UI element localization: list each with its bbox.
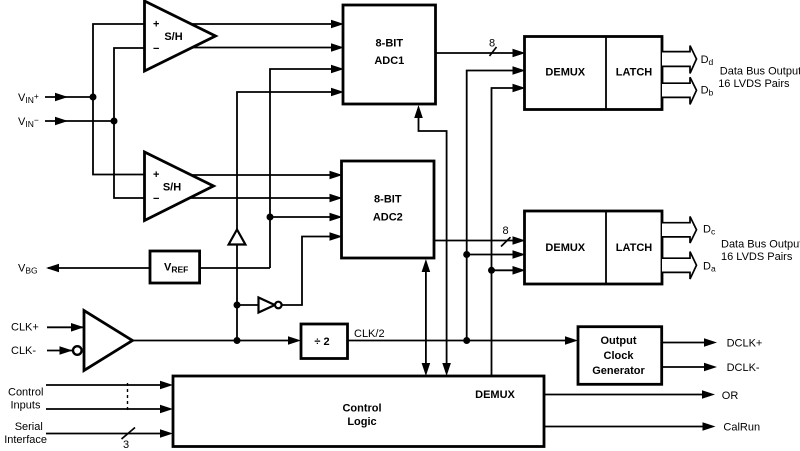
svg-text:16 LVDS Pairs: 16 LVDS Pairs bbox=[718, 78, 790, 90]
svg-text:Logic: Logic bbox=[347, 416, 376, 428]
svg-text:3: 3 bbox=[123, 439, 129, 451]
svg-text:LATCH: LATCH bbox=[616, 67, 653, 79]
svg-text:DEMUX: DEMUX bbox=[475, 389, 515, 401]
wire S/H1 output to ADC1 input 2 bbox=[180, 43, 344, 52]
block ADC1 bbox=[343, 5, 436, 104]
svg-text:S/H: S/H bbox=[163, 181, 181, 193]
wire inverter output to ADC2 input 4 bbox=[282, 232, 343, 305]
wire VBG output bbox=[46, 264, 150, 273]
block control logic bbox=[173, 376, 544, 447]
bus width slash 8 (bottom) bbox=[501, 225, 511, 247]
svg-text:16 LVDS Pairs: 16 LVDS Pairs bbox=[721, 251, 793, 263]
block output clock generator bbox=[578, 327, 662, 385]
wire VIN- input bbox=[45, 117, 114, 125]
label serial interface bbox=[4, 421, 47, 446]
svg-text:ADC1: ADC1 bbox=[374, 55, 404, 67]
node junction CLK/2 to DEMUX2 bbox=[463, 251, 470, 258]
label control inputs bbox=[8, 386, 43, 411]
wire CalRun output bbox=[544, 422, 716, 431]
block divide-by-2 bbox=[301, 324, 348, 359]
wire clock vertical to ADC1 input 4 bbox=[237, 88, 344, 341]
svg-text:DCLK-: DCLK- bbox=[727, 362, 760, 374]
svg-text:ADC2: ADC2 bbox=[373, 212, 403, 224]
control inputs ellipsis dashed line bbox=[127, 383, 129, 411]
node junction demux control bbox=[488, 267, 495, 274]
svg-text:−: − bbox=[153, 193, 159, 205]
svg-text:8: 8 bbox=[502, 225, 508, 237]
svg-text:LATCH: LATCH bbox=[616, 242, 653, 254]
wire DCLK+ output bbox=[662, 338, 718, 347]
wire CLK- input bbox=[47, 346, 73, 355]
wire VIN- to S/H inputs bbox=[114, 48, 145, 198]
wire clock buffer output to divider bbox=[133, 336, 302, 345]
svg-text:Generator: Generator bbox=[592, 365, 645, 377]
bus arrow Dd bbox=[662, 46, 714, 74]
wire serial interface input bbox=[46, 429, 173, 438]
svg-text:+: + bbox=[153, 169, 159, 181]
svg-text:8-BIT: 8-BIT bbox=[376, 37, 404, 49]
svg-text:DCLK+: DCLK+ bbox=[727, 338, 763, 350]
node VIN+ junction bbox=[90, 94, 97, 101]
svg-text:Output: Output bbox=[600, 335, 636, 347]
clock direction open arrow bbox=[229, 230, 246, 245]
wire S/H1 output to ADC1 input 1 bbox=[180, 20, 344, 29]
wire CLK+ input bbox=[47, 323, 84, 332]
svg-text:CalRun: CalRun bbox=[723, 421, 760, 433]
wire ADC1 output bus to DEMUX1 bbox=[436, 49, 526, 58]
wire branch to DEMUX2 input 2 bbox=[467, 250, 526, 259]
svg-text:Control: Control bbox=[342, 403, 381, 415]
svg-text:8-BIT: 8-BIT bbox=[374, 194, 402, 206]
label data bus output top bbox=[718, 66, 800, 90]
block DEMUX/LATCH 1 bbox=[525, 37, 663, 110]
wire inverter input bbox=[237, 304, 259, 306]
wire VIN+ to S/H inputs bbox=[93, 24, 145, 175]
svg-text:Clock: Clock bbox=[604, 350, 635, 362]
svg-text:−: − bbox=[153, 43, 159, 55]
bus arrow Db bbox=[662, 77, 714, 104]
wire VREF output to reference vertical bbox=[200, 267, 270, 269]
wire CLK/2 line to output clock generator bbox=[348, 336, 579, 345]
clock input buffer bbox=[84, 311, 133, 371]
svg-text:Control: Control bbox=[8, 386, 43, 398]
svg-text:S/H: S/H bbox=[164, 31, 182, 43]
bus arrow Da bbox=[662, 252, 716, 279]
bus width slash 3 (serial) bbox=[122, 428, 136, 451]
svg-text:8: 8 bbox=[489, 38, 495, 50]
svg-text:+: + bbox=[153, 19, 159, 31]
CLK- inversion bubble bbox=[73, 346, 82, 355]
svg-text:DEMUX: DEMUX bbox=[545, 242, 585, 254]
wire demux control vertical to DEMUX1 input 3 bbox=[492, 84, 526, 376]
node inverter input junction bbox=[234, 302, 241, 309]
wire control input 2 bbox=[46, 405, 173, 414]
wire reference vertical to ADC1 input 3 bbox=[270, 65, 344, 268]
block VREF bbox=[150, 251, 200, 283]
svg-text:OR: OR bbox=[722, 390, 739, 402]
svg-text:CLK-: CLK- bbox=[11, 345, 36, 357]
svg-text:Serial: Serial bbox=[15, 421, 43, 433]
wire OR output bbox=[544, 390, 715, 399]
wire branch to ADC2 input 3 bbox=[270, 213, 343, 222]
label data bus output bottom bbox=[721, 238, 800, 262]
wire VIN+ input bbox=[45, 93, 93, 101]
bus arrow Dc bbox=[662, 217, 716, 244]
wire DCLK- output bbox=[662, 363, 718, 372]
svg-text:÷ 2: ÷ 2 bbox=[314, 336, 329, 348]
svg-text:CLK+: CLK+ bbox=[11, 322, 39, 334]
wire CLK/2 vertical to DEMUX1 input 2 bbox=[467, 66, 526, 340]
node clock line junction bbox=[234, 337, 241, 344]
svg-text:CLK/2: CLK/2 bbox=[354, 328, 385, 340]
node VIN- junction bbox=[111, 118, 118, 125]
wire S/H2 output to ADC2 input 2 bbox=[180, 194, 343, 203]
op-amp S/H 2 bbox=[145, 152, 214, 221]
svg-text:Data Bus Output: Data Bus Output bbox=[721, 238, 800, 250]
wire ADC2 output bus to DEMUX2 bbox=[434, 236, 526, 245]
node CLK/2 junction bbox=[463, 337, 470, 344]
block DEMUX/LATCH 2 bbox=[525, 211, 663, 284]
svg-text:Data Bus Output: Data Bus Output bbox=[720, 66, 800, 78]
inverter bbox=[259, 298, 282, 313]
op-amp S/H 1 bbox=[145, 1, 216, 71]
wire control input 1 bbox=[46, 381, 173, 390]
wire bidirectional ADC2 to control logic bbox=[422, 259, 431, 376]
wire bidirectional ADC1 to control logic bbox=[414, 105, 451, 376]
svg-text:DEMUX: DEMUX bbox=[545, 67, 585, 79]
wire S/H2 output to ADC2 input 1 bbox=[180, 171, 343, 180]
bus width slash 8 (top) bbox=[489, 38, 497, 57]
node junction at reference vertical bbox=[267, 214, 274, 221]
svg-text:Inputs: Inputs bbox=[11, 399, 41, 411]
block ADC2 bbox=[342, 161, 435, 258]
wire branch to DEMUX2 input 3 bbox=[492, 266, 526, 275]
svg-text:Interface: Interface bbox=[4, 434, 47, 446]
